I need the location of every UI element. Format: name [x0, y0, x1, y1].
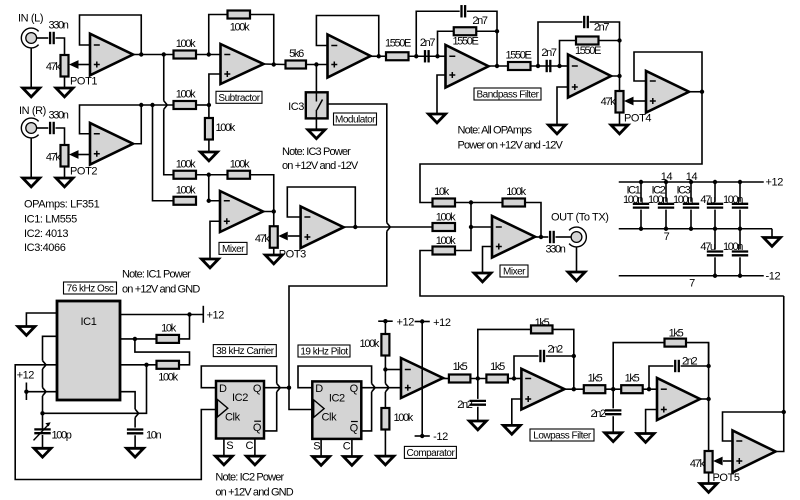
wire L signal down to mixer [163, 55, 165, 101]
label box Comparator [404, 446, 456, 459]
wire POT4 wiper to A6 +in [634, 100, 647, 102]
value label 100k [176, 185, 196, 197]
junction bandpass2 input node [536, 64, 540, 68]
pin label 14 (IC3) [686, 171, 698, 183]
wire A9 fb vertical / to POT5 [708, 343, 710, 451]
svg-text:IC2: IC2 [232, 392, 248, 404]
label box Modulator [334, 113, 377, 126]
wire POT1 to ground [64, 77, 66, 89]
svg-text:100k: 100k [230, 22, 250, 34]
svg-text:7: 7 [689, 278, 695, 290]
wire IC1 +12 pin (right) [120, 314, 203, 316]
svg-text:IC1: LM555: IC1: LM555 [24, 214, 77, 226]
junction IC1 out to 10k [187, 312, 191, 316]
svg-text:S: S [226, 440, 233, 452]
svg-text:100k: 100k [158, 372, 178, 384]
value label 2n2 [548, 344, 564, 356]
op-amp A3 (modulator driver) [328, 35, 371, 78]
IC IC2a 4013 flip-flop (carrier) [216, 381, 264, 452]
value label 100k upper [360, 338, 380, 350]
wire osc out long loop [15, 365, 216, 480]
wire J2 to C2 [36, 127, 48, 129]
op-amp A6 (bandpass buffer) [646, 71, 689, 113]
value label 5k6 [289, 48, 304, 60]
wire IC2b C to ground [351, 439, 353, 457]
svg-text:Note: IC3 Power: Note: IC3 Power [282, 146, 351, 158]
IC IC1 LM555 [57, 301, 120, 400]
ground at divider [377, 456, 394, 465]
value label 100n [648, 194, 668, 206]
wire +12 to IC1 [26, 391, 57, 393]
wire cap 2 to 0V [665, 210, 667, 229]
wire A4 output [489, 65, 509, 67]
wire hop L-line over R-line [164, 101, 167, 109]
label OUT (To TX) [551, 212, 609, 224]
op-amp A1 (L buffer) [90, 34, 133, 76]
wire hop IC2a loop over Q [277, 384, 280, 392]
svg-text:100p: 100p [52, 430, 72, 442]
wire 100k to ground [208, 140, 210, 153]
svg-text:1550E: 1550E [452, 36, 478, 48]
wire IC2b loop to Qbar [361, 392, 371, 431]
wire 100k to divider [196, 104, 209, 106]
wire node up to 2n7 top [416, 11, 459, 56]
value label 100n [723, 194, 743, 206]
wire A3 output [371, 55, 387, 57]
value label 10k [161, 323, 177, 335]
wire A10 feedback [723, 412, 784, 441]
wire hop carrier over A7 out [387, 223, 390, 231]
wire A2 feedback left [209, 15, 228, 55]
resistor 100k (divider upper) [381, 334, 389, 356]
ground at J1 [23, 88, 40, 97]
junction mixer1 feedback tap [207, 173, 211, 177]
junction +12 stub [24, 390, 28, 394]
wire -in to op [471, 226, 492, 228]
resistor 1k5 (lowpass1 feedback) [531, 325, 553, 333]
label IC2 [651, 185, 665, 197]
junction lowpass node B [611, 387, 615, 391]
wire 1k5 fb to A8 out [553, 329, 574, 356]
capacitor 330n (L input) [50, 32, 54, 44]
svg-text:47k: 47k [690, 458, 706, 470]
value label 100n [623, 194, 643, 206]
wire A9 output down [699, 398, 709, 400]
label +12 (IC1 right) [207, 310, 225, 322]
svg-text:Q: Q [350, 422, 359, 434]
wire IC1 out pin [120, 338, 157, 340]
svg-text:+12: +12 [17, 370, 35, 382]
wire +12 to cap 4 [714, 182, 716, 202]
capacitor 100p variable [34, 422, 51, 440]
svg-text:OUT (To TX): OUT (To TX) [551, 212, 609, 224]
wire 2n2 no2 to ground [612, 416, 614, 433]
wire A2 +in [209, 74, 221, 118]
wire 10n vertical [134, 418, 136, 428]
svg-text:Modulator: Modulator [335, 115, 376, 126]
junction A8 -in node [512, 376, 516, 380]
svg-text:100n: 100n [673, 194, 693, 206]
junction 0V rail col 2 [664, 227, 668, 231]
wire A1 output [133, 54, 174, 56]
svg-text:Comparator: Comparator [406, 448, 455, 459]
svg-text:10k: 10k [161, 323, 177, 335]
wire carrier vertical lower [289, 231, 387, 388]
switch IC3 modulator (4066) [306, 92, 328, 118]
wire 2n7 top to output [467, 11, 497, 31]
svg-text:Note: IC2 Power: Note: IC2 Power [215, 472, 284, 484]
label IC3 [288, 101, 304, 113]
svg-text:19 kHz Pilot: 19 kHz Pilot [300, 347, 348, 358]
junction modulator tap [314, 62, 318, 66]
wire mixer1 feedback right [250, 175, 274, 212]
pot POT5 47k [705, 451, 723, 473]
value label 10n [146, 430, 162, 442]
svg-text:IC2: 4013: IC2: 4013 [24, 228, 68, 240]
svg-text:S: S [313, 440, 320, 452]
resistor 100k (L to mixer1) [174, 171, 197, 179]
wire node2 up to 1550E feedback [560, 41, 577, 67]
resistor 1k5 (comparator out) [449, 375, 471, 383]
label box Mixer [500, 265, 528, 278]
wire C1 to POT1 top [56, 38, 65, 55]
pot POT1 47k [61, 55, 79, 77]
svg-text:Clk: Clk [225, 411, 241, 423]
capacitor 100n decoupling rail (+12) [732, 204, 748, 208]
junction mixer2 fb tap [469, 200, 473, 204]
value label 100k [176, 89, 196, 101]
junction +12 rail col 5 [738, 180, 742, 184]
op-amp A7 (mixer1 buffer) [301, 206, 344, 248]
junction cap node [40, 411, 44, 415]
junction A9 out [706, 397, 710, 401]
wire POT2 to ground [64, 167, 66, 179]
junction R/ground divider [207, 103, 211, 107]
junction A8 out [572, 387, 576, 391]
svg-text:Q: Q [253, 383, 262, 395]
value label 2n7 [594, 22, 610, 34]
text OPAmps: LF351 [24, 199, 100, 211]
wire node to A4 -in [438, 55, 446, 57]
junction 0V rail col 5 [738, 227, 742, 231]
resistor 100k (divider lower) [381, 408, 389, 430]
value label 100k [176, 159, 196, 171]
wire cap 1 to 0V [640, 210, 642, 229]
resistor 100k (pilot to mixer2) [433, 247, 456, 255]
resistor 1k5 (node B to A9) [621, 385, 643, 393]
wire 1550E to node2 [531, 65, 560, 67]
junction bandpass1 input node [414, 54, 418, 58]
note IC2 power line2 [215, 487, 293, 499]
value label 100n [673, 194, 693, 206]
resistor 1k5 (node A to A8) [486, 375, 508, 383]
wire divider node [384, 356, 386, 384]
ground at POT4 [611, 125, 628, 134]
svg-text:330n: 330n [48, 20, 68, 32]
value label 2n2 [457, 399, 473, 411]
svg-text:5k6: 5k6 [289, 48, 304, 60]
svg-text:10n: 10n [146, 430, 162, 442]
op-amp A10 (pilot buffer) [733, 431, 776, 473]
capacitor 2n7 (bandpass1 series) [425, 50, 429, 62]
pot POT4 47k [616, 91, 634, 113]
wire 100k lower to ground [384, 430, 386, 457]
junction comparator -12 [420, 434, 424, 438]
wire J2 shield to ground [30, 138, 32, 178]
svg-text:100k: 100k [230, 159, 250, 171]
svg-text:POT2: POT2 [70, 166, 97, 178]
wire 0V to cap low 1 [714, 229, 716, 250]
junction 100k/cap-node [144, 363, 148, 367]
ground at POT1 [56, 88, 73, 97]
wire POT3 to ground [273, 248, 275, 255]
junction mixer1 out [272, 209, 276, 213]
wire node up to 1550E feedback [438, 31, 454, 56]
supply tick -12 comparator [415, 435, 430, 437]
svg-text:1k5: 1k5 [588, 373, 603, 385]
junction mixer2 -in [469, 225, 473, 229]
junction A10 fb node [782, 410, 786, 414]
wire comparator out [443, 378, 449, 380]
wire L signal down to mixer 2 [164, 109, 174, 175]
label box Bandpass Filter [474, 88, 541, 101]
label box 76 kHz Osc [64, 282, 117, 295]
label IN (R) [19, 105, 46, 117]
wire hop IC2b loop over Q [372, 384, 375, 392]
svg-text:D: D [219, 383, 227, 395]
junction 0V rail col 3 [689, 227, 693, 231]
wire node A to 1k5 fb [478, 329, 531, 378]
wire 10k to +12 [179, 315, 190, 339]
label POT3 [279, 249, 306, 261]
svg-text:D: D [315, 383, 323, 395]
label POT1 [70, 76, 97, 88]
ground at 0V rail [764, 238, 781, 247]
junction A9 -in node [647, 387, 651, 391]
ground at IC2a C [246, 456, 263, 465]
svg-text:100n: 100n [648, 194, 668, 206]
wire R signal down to mixer [153, 105, 174, 201]
wire out node jog to 100k [135, 339, 190, 365]
resistor 100k (subtractor + to ground) [205, 118, 213, 140]
label -12 rail [766, 271, 781, 283]
junction 0V rail col 1 [639, 227, 643, 231]
wire comparator supply [421, 322, 423, 437]
label box Subtractor [216, 91, 262, 104]
value label 1k5 [669, 328, 684, 340]
wire A9 2n2 feedback [649, 366, 673, 389]
svg-text:+12: +12 [766, 177, 784, 189]
wire IC2b Q out [361, 387, 401, 389]
svg-text:76 kHz Osc: 76 kHz Osc [67, 284, 114, 295]
wire cap node vertical mid [42, 369, 44, 388]
capacitor 100n decoupling IC3 (+12) [683, 204, 699, 208]
ground at J3 [568, 272, 585, 281]
wire 2n2 fb2 to output [681, 365, 709, 367]
wire J1 shield to ground [30, 48, 32, 88]
ground at mixer2 +in [474, 273, 491, 282]
svg-text:1550E: 1550E [385, 38, 411, 50]
svg-text:IN (L): IN (L) [18, 13, 43, 25]
wire node B to 2n2 [612, 389, 614, 408]
svg-text:2n2: 2n2 [590, 408, 606, 420]
wire POT5 to ground [708, 473, 710, 484]
ground at IC2a S [215, 456, 232, 465]
svg-text:100k: 100k [176, 89, 196, 101]
wire mixer1 +in to ground [210, 221, 220, 259]
resistor 1550E (bandpass interstage) [508, 62, 531, 70]
wire node2 up to 2n7 top [538, 22, 582, 66]
svg-text:Power on +12V and -12V: Power on +12V and -12V [458, 140, 564, 152]
wire mixer2 +in to ground [483, 247, 493, 274]
svg-text:330n: 330n [48, 110, 68, 122]
wire pilot to 100k [420, 251, 784, 297]
label +12 divider [397, 317, 415, 329]
svg-text:47u: 47u [700, 194, 716, 206]
wire hop cap-node over osc out [43, 361, 46, 369]
op-amp A-mix2 (output mixer) [492, 216, 535, 258]
wire IC1 pin5 to 10n [120, 392, 135, 409]
wire A5 fb vertical [619, 41, 621, 77]
svg-text:C: C [245, 440, 253, 452]
note IC2 power line1 [215, 472, 284, 484]
junction +12 rail col 4 [713, 180, 717, 184]
value label 1k5 [625, 373, 640, 385]
ground at IC2b S [313, 457, 330, 466]
note IC3 power line1 [282, 146, 351, 158]
svg-text:POT1: POT1 [70, 76, 97, 88]
ground at IC3 [308, 130, 325, 139]
wire A2 feedback right [250, 15, 274, 65]
svg-text:2n7: 2n7 [420, 37, 436, 49]
value label 1k5 [453, 361, 468, 373]
wire A8 2n2 feedback [514, 356, 539, 379]
svg-text:Note: All OPAmps: Note: All OPAmps [458, 125, 533, 137]
junction A7 out [353, 225, 357, 229]
wire 0V to cap low 2 [739, 229, 741, 250]
wire 1k5 to node B [605, 388, 621, 390]
svg-text:2n7: 2n7 [594, 22, 610, 34]
capacitor 2n2 (A9 feedback) [675, 360, 679, 372]
wire A5 +in to ground [557, 87, 568, 125]
svg-text:1550E: 1550E [505, 50, 531, 62]
wire +12 rail [619, 181, 764, 183]
wire IC2b D loop [298, 366, 372, 388]
note IC3 power line2 [282, 160, 359, 172]
junction mixer2 out [539, 235, 543, 239]
wire IC2a Q out [264, 387, 289, 389]
label IC3 [676, 185, 690, 197]
wire IC1 pin1 to ground [26, 313, 57, 327]
junction A2 out [272, 62, 276, 66]
ground at POT3 [265, 255, 282, 264]
resistor 1550E (bandpass2 feedback) [576, 37, 599, 45]
ground at mixer1 +in [202, 259, 219, 268]
svg-text:100k: 100k [216, 122, 236, 134]
junction subtractor -in [207, 52, 211, 56]
wire 10k to fb node [455, 202, 503, 204]
value label 1550E [505, 50, 531, 62]
wire cap 3 to 0V [690, 210, 692, 229]
pot POT3 47k [270, 226, 288, 248]
value label 330n [48, 110, 68, 122]
ground at A4 +in [429, 114, 446, 123]
wire 0V rail to ground [771, 229, 773, 238]
op-amp A2 subtractor [221, 44, 264, 84]
junction A1 out to mixer tap [162, 52, 166, 56]
resistor 100k (mixer2 feedback) [503, 199, 526, 207]
svg-text:on +12V and GND: on +12V and GND [215, 487, 293, 499]
value label 47k POT3 [255, 233, 271, 245]
svg-text:100k: 100k [436, 235, 456, 247]
svg-text:Clk: Clk [322, 412, 338, 424]
ground at POT2 [56, 178, 73, 187]
value label 47k POT1 [46, 61, 62, 73]
svg-text:IN (R): IN (R) [19, 105, 46, 117]
ground at IC2b C [343, 457, 360, 466]
IC IC2b 4013 flip-flop (pilot) [312, 381, 361, 452]
wire +12 to cap 1 [640, 182, 642, 202]
wire IC1 thresh pin [120, 364, 157, 366]
label +12 comparator [433, 317, 451, 329]
label IN (L) [18, 13, 43, 25]
junction A4 out [495, 64, 499, 68]
resistor 100k (subtractor feedback) [228, 11, 251, 19]
capacitor 100n decoupling IC1 (+12) [633, 204, 649, 208]
wire POT3 wiper to A7 +in [288, 235, 301, 237]
svg-text:Lowpass Filter: Lowpass Filter [533, 431, 592, 442]
svg-text:2n7: 2n7 [541, 47, 557, 59]
label POT5 [713, 472, 740, 484]
capacitor 330n (output) [550, 231, 554, 243]
svg-text:Q: Q [253, 422, 262, 434]
resistor 100k (R to mixer1) [174, 197, 197, 205]
resistor 5k6 [286, 61, 307, 69]
wire A3 feedback [316, 16, 378, 57]
junction mixer1 -in [207, 199, 211, 203]
svg-text:1k5: 1k5 [453, 361, 468, 373]
ground at J2 [23, 178, 40, 187]
junction -12 rail col 2 [738, 274, 742, 278]
wire IC3 to ground [315, 118, 317, 129]
value label 47u [700, 194, 716, 206]
wire to A9 -in [643, 388, 657, 390]
svg-text:100k: 100k [506, 186, 526, 198]
junction -12 rail col 1 [713, 274, 717, 278]
junction lowpass node A [476, 376, 480, 380]
junction B1 out/feedback [139, 103, 143, 107]
junction A9 fb node [706, 364, 710, 368]
resistor 1550E (bandpass1 feedback) [454, 27, 477, 35]
op-amp A9 (lowpass 2) [657, 378, 700, 420]
svg-text:2n7: 2n7 [472, 15, 488, 27]
svg-text:38 kHz Carrier: 38 kHz Carrier [216, 346, 275, 357]
resistor 10k (555) [157, 335, 180, 343]
wire A5 output [612, 76, 620, 91]
resistor 1k5 (A8 to node B) [584, 385, 606, 393]
capacitor 100n decoupling IC2 (+12) [658, 204, 674, 208]
svg-text:100n: 100n [723, 241, 743, 253]
resistor 1k5 (lowpass2 feedback) [665, 339, 687, 347]
wire A7 output to mixer2 [344, 226, 433, 228]
value label 100k [436, 212, 456, 224]
wire IC2a C to ground [254, 439, 256, 457]
value label 1k5 [490, 361, 505, 373]
svg-text:2n2: 2n2 [457, 399, 473, 411]
svg-text:-12: -12 [766, 271, 781, 283]
ground at IC1 pin1 [18, 327, 35, 336]
wire 100k to A2 -in [196, 54, 221, 56]
